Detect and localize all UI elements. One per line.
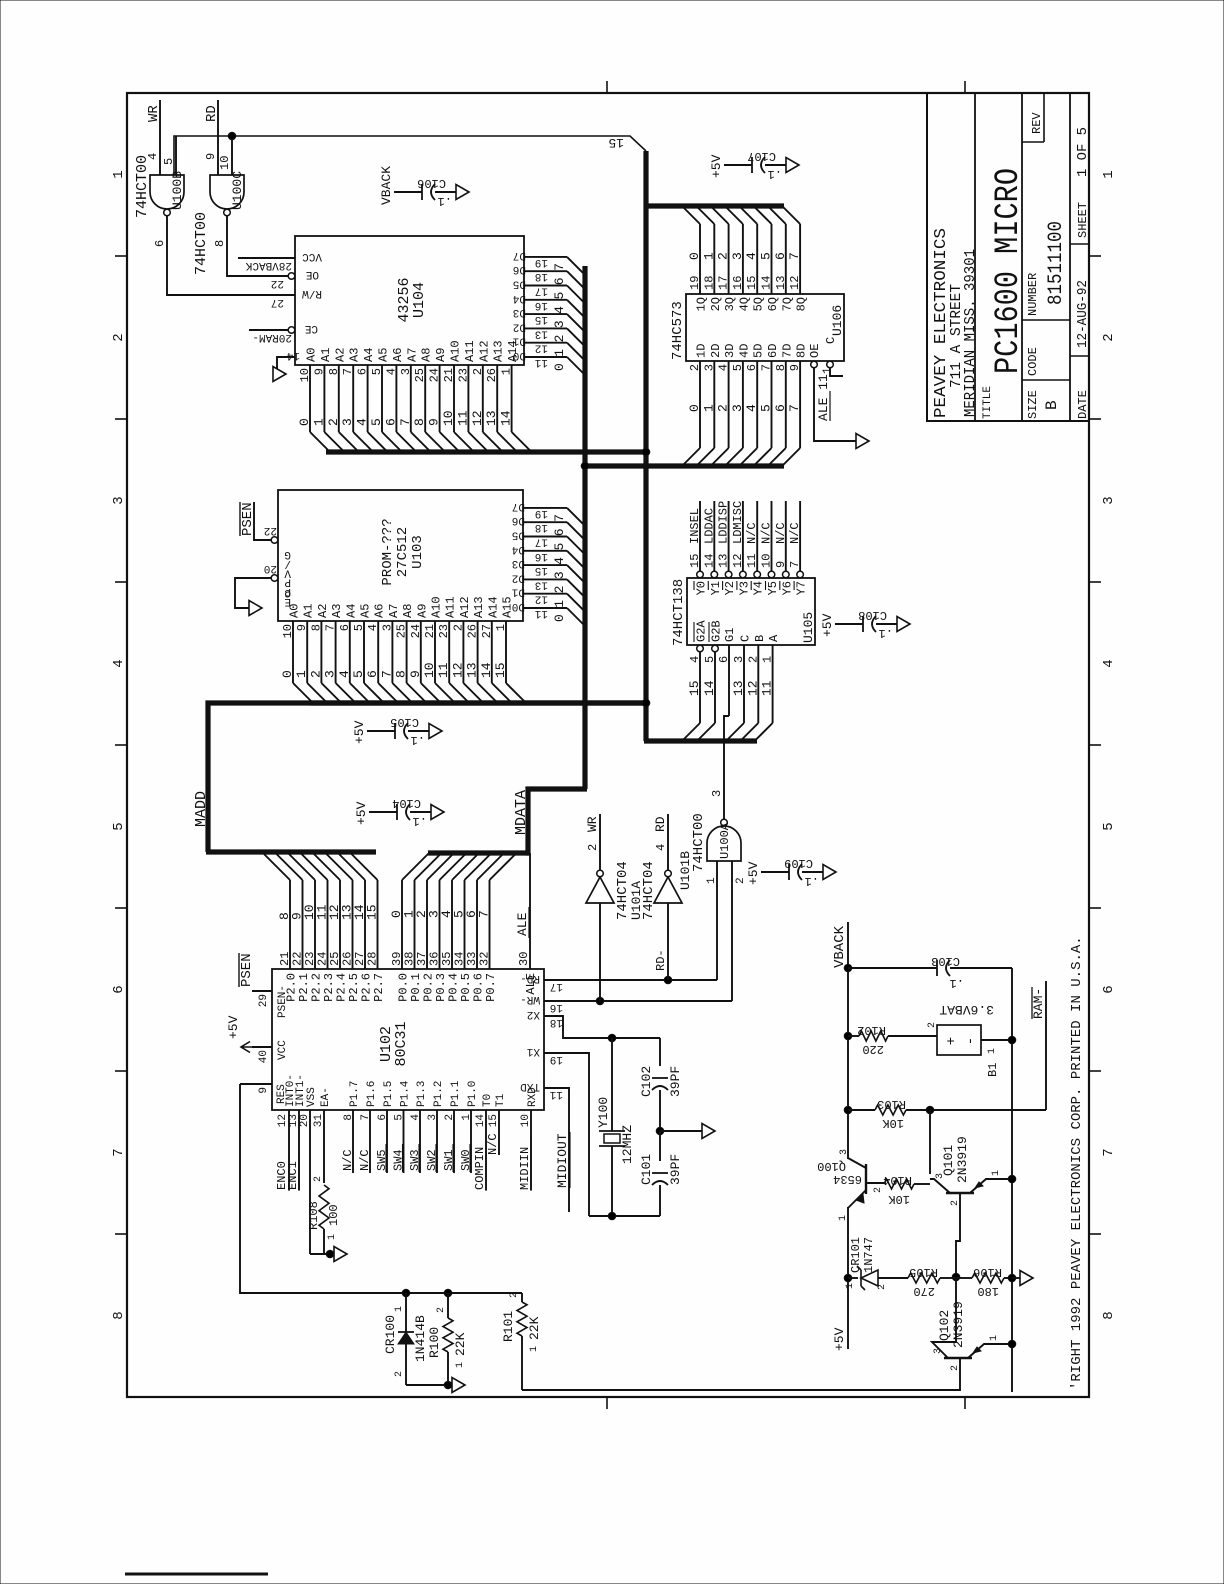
svg-text:6: 6 [365, 670, 380, 678]
wire U100B output pin6 to U104 R/W [167, 216, 295, 295]
svg-text:26: 26 [485, 368, 499, 382]
svg-text:VBACK: VBACK [379, 166, 394, 205]
capacitor C108 .1 [835, 623, 863, 625]
U105 pins Y0-Y7 outputs [688, 501, 709, 595]
capacitor C109 .1 [761, 871, 789, 873]
svg-text:SW3: SW3 [408, 1149, 422, 1171]
svg-text:P2.7: P2.7 [372, 973, 386, 1002]
svg-text:7: 7 [324, 624, 338, 631]
svg-text:14: 14 [475, 1114, 487, 1128]
svg-text:18: 18 [535, 270, 548, 282]
svg-text:11: 11 [534, 607, 548, 619]
svg-text:2: 2 [394, 1371, 405, 1377]
svg-text:15: 15 [365, 904, 380, 920]
svg-text:A3: A3 [330, 604, 344, 618]
svg-text:1: 1 [394, 1306, 405, 1312]
svg-text:0: 0 [297, 418, 312, 426]
svg-text:4: 4 [384, 368, 398, 375]
svg-text:P1.4: P1.4 [400, 1080, 412, 1107]
svg-text:N/C: N/C [358, 1149, 372, 1171]
bus U106 Q branch vertical [644, 203, 784, 208]
svg-text:6: 6 [153, 240, 167, 247]
svg-text:19: 19 [550, 1053, 563, 1065]
svg-text:ALE 11: ALE 11 [816, 374, 831, 421]
svg-text:13: 13 [535, 578, 548, 590]
ground arrow U104 pin14 [273, 367, 286, 382]
svg-text:7: 7 [379, 670, 394, 678]
svg-text:Q102: Q102 [937, 1310, 952, 1341]
svg-text:31: 31 [313, 1114, 325, 1128]
svg-text:2: 2 [471, 368, 485, 375]
svg-text:10: 10 [760, 554, 774, 568]
svg-text:22: 22 [264, 524, 277, 536]
svg-text:3D: 3D [723, 344, 737, 358]
svg-text:3: 3 [323, 670, 338, 678]
U102 pin ALE 30 [529, 853, 531, 969]
junction dot Q101 emitter gnd [1008, 1175, 1016, 1183]
resistor R108 100 [319, 1185, 329, 1229]
svg-text:R104: R104 [883, 1173, 912, 1187]
svg-text:A6: A6 [373, 604, 387, 618]
svg-text:-: - [963, 1037, 979, 1045]
svg-text:SW0: SW0 [459, 1149, 473, 1171]
U102 pin RD- 17 [544, 979, 717, 981]
junction dot pin10 on A15 wire [228, 132, 236, 140]
svg-text:15: 15 [493, 662, 508, 678]
svg-text:6: 6 [773, 252, 788, 260]
svg-text:PROM-???: PROM-??? [380, 518, 396, 585]
svg-text:Y100: Y100 [596, 1097, 611, 1128]
transistor Q101 2N3919 [946, 1192, 974, 1194]
svg-text:13: 13 [774, 276, 788, 290]
svg-text:D4: D4 [512, 292, 526, 304]
svg-text:5: 5 [111, 822, 127, 830]
svg-text:.1: .1 [805, 874, 819, 888]
svg-text:A2: A2 [316, 604, 330, 618]
svg-text:6: 6 [383, 418, 398, 426]
zener CR101 1N747 [848, 1277, 858, 1279]
junction dot CR100 R100 ground [444, 1381, 452, 1389]
svg-text:6534: 6534 [833, 1172, 862, 1186]
svg-text:24: 24 [428, 368, 442, 382]
svg-text:C101: C101 [639, 1154, 654, 1185]
svg-text:Q100: Q100 [817, 1159, 846, 1173]
svg-text:A10: A10 [430, 596, 444, 618]
svg-text:21: 21 [423, 624, 437, 638]
svg-text:13: 13 [484, 410, 499, 426]
svg-text:18: 18 [702, 276, 716, 290]
svg-text:10: 10 [298, 368, 312, 382]
svg-text:A10: A10 [449, 340, 463, 362]
svg-text:3: 3 [427, 1114, 439, 1121]
U102 pin INT0- ENC0 12 [288, 1110, 290, 1190]
U103 pin G/VPP 22 PSEN [271, 537, 278, 544]
svg-text:Y2: Y2 [723, 581, 737, 595]
svg-text:3: 3 [552, 320, 567, 328]
svg-text:A7: A7 [387, 604, 401, 618]
svg-text:R105: R105 [909, 1265, 938, 1279]
svg-text:13: 13 [535, 327, 548, 339]
bus MDATA P0 vertical at U102 [526, 850, 530, 855]
wire CR100 to ground join [406, 1384, 448, 1386]
svg-text:1: 1 [989, 1335, 1000, 1341]
svg-text:D4: D4 [511, 543, 525, 555]
svg-text:R102: R102 [857, 1023, 886, 1037]
svg-text:5: 5 [352, 624, 366, 631]
svg-text:74HCT00: 74HCT00 [691, 813, 707, 872]
svg-text:VBACK: VBACK [832, 925, 848, 968]
svg-text:4: 4 [717, 364, 731, 371]
svg-text:A11: A11 [444, 596, 458, 618]
battery B1 3.6VBAT [937, 1025, 981, 1055]
svg-text:A1: A1 [302, 604, 316, 618]
svg-text:9: 9 [774, 561, 788, 568]
U103 pin CE 20 grounded [271, 575, 278, 582]
junction dot R102 tap [844, 1032, 852, 1040]
svg-text:4: 4 [410, 1114, 422, 1121]
junction dot reset-R100 [444, 1289, 452, 1297]
svg-text:8: 8 [343, 1114, 355, 1121]
svg-text:25: 25 [395, 624, 409, 638]
ground arrow crystal [702, 1124, 715, 1139]
svg-text:MIDIOUT: MIDIOUT [555, 1133, 570, 1188]
svg-text:17: 17 [717, 276, 731, 290]
svg-text:G2A: G2A [695, 620, 709, 642]
junction dot VBACK-C103 [844, 964, 852, 972]
svg-text:4Q: 4Q [737, 297, 751, 311]
svg-text:3: 3 [730, 252, 745, 260]
resistor R101 22K [521, 1293, 523, 1302]
wire U100A input1 from RD- [716, 861, 718, 980]
svg-text:1: 1 [552, 349, 567, 357]
svg-text:A7: A7 [405, 348, 419, 362]
capacitor C105 .1 [367, 730, 395, 732]
svg-text:RD: RD [653, 816, 668, 832]
svg-text:MADD: MADD [193, 791, 210, 827]
svg-text:C108: C108 [858, 608, 887, 622]
svg-text:.1: .1 [950, 976, 964, 990]
svg-text:SW1: SW1 [442, 1149, 456, 1171]
svg-text:16: 16 [535, 550, 548, 562]
svg-text:6: 6 [1101, 985, 1117, 993]
svg-text:+5V: +5V [832, 1327, 847, 1351]
svg-text:2: 2 [877, 1284, 888, 1290]
svg-text:6: 6 [111, 985, 127, 993]
svg-text:10K: 10K [882, 1116, 904, 1130]
svg-text:D6: D6 [512, 514, 525, 526]
svg-text:R101: R101 [501, 1311, 516, 1342]
svg-text:8: 8 [1101, 1311, 1117, 1319]
U104 pin GND 14 with ground [277, 357, 295, 374]
wire crystal ground rail [589, 1215, 660, 1217]
svg-text:D7: D7 [513, 249, 526, 261]
svg-text:B: B [753, 635, 767, 642]
junction dot rail Y100 [608, 1212, 616, 1220]
svg-text:1: 1 [822, 367, 834, 374]
svg-text:9: 9 [258, 1087, 270, 1094]
svg-text:RD: RD [204, 105, 220, 122]
svg-text:R100: R100 [427, 1327, 442, 1358]
svg-text:13: 13 [731, 680, 746, 696]
svg-text:X1: X1 [526, 1045, 540, 1057]
resistor R104 10K [884, 1179, 914, 1189]
svg-text:30: 30 [517, 952, 531, 966]
svg-text:5: 5 [162, 158, 176, 165]
svg-text:2Q: 2Q [709, 297, 723, 311]
U102 pin INT1- ENC1 13 [298, 1110, 300, 1190]
bus MADD P2 vertical at U102 [206, 849, 376, 854]
junction dot MADD-U104 [642, 448, 650, 456]
svg-text:OE: OE [305, 268, 319, 280]
resistor R105 270 [908, 1273, 940, 1283]
svg-text:16: 16 [731, 276, 745, 290]
svg-text:2: 2 [716, 404, 731, 412]
svg-text:R103: R103 [877, 1097, 906, 1111]
svg-text:5Q: 5Q [752, 297, 766, 311]
svg-text:2: 2 [586, 844, 600, 851]
svg-text:G2B: G2B [710, 620, 724, 642]
svg-text:12: 12 [731, 554, 745, 568]
junction dot MDATA split [581, 462, 589, 470]
svg-text:1: 1 [327, 1234, 338, 1240]
svg-text:1: 1 [529, 1346, 540, 1352]
svg-text:40: 40 [258, 1050, 270, 1063]
svg-text:1: 1 [294, 670, 309, 678]
svg-text:220: 220 [862, 1042, 884, 1056]
junction dot RD- to U101B [664, 976, 672, 984]
svg-text:A14: A14 [486, 596, 500, 618]
U102 pin VSS 20 [309, 1110, 311, 1254]
junction dot reset-CR100 [402, 1289, 410, 1297]
junction dot battery gnd [1008, 1036, 1016, 1044]
U103 pins A0-A15 with bus fan [280, 604, 313, 703]
svg-text:4: 4 [146, 153, 160, 160]
wire pin5 from A15 [175, 136, 177, 175]
svg-text:2: 2 [308, 670, 323, 678]
svg-text:Y7: Y7 [795, 581, 809, 595]
U103 pins D0-D7 with bus fan [512, 600, 586, 627]
ground arrow C109 [823, 865, 836, 880]
ground arrow U103 CE [249, 601, 262, 616]
svg-text:4: 4 [552, 557, 567, 565]
ground arrow C104 [431, 805, 444, 820]
svg-text:14: 14 [760, 276, 774, 290]
svg-text:5: 5 [552, 292, 567, 300]
svg-text:U100C: U100C [230, 171, 245, 210]
svg-text:U106: U106 [830, 305, 845, 336]
resistor R100 22K [443, 1318, 453, 1352]
svg-text:29: 29 [258, 994, 270, 1007]
svg-text:3: 3 [111, 496, 127, 504]
svg-text:+5V: +5V [709, 154, 724, 178]
svg-text:17: 17 [550, 980, 563, 992]
svg-text:SHEET: SHEET [1076, 202, 1090, 238]
U105 pin G1 from U100A [728, 645, 730, 716]
svg-text:.1: .1 [411, 733, 425, 747]
crystal Y100 12MHZ [611, 1038, 613, 1131]
svg-text:8: 8 [412, 418, 427, 426]
svg-text:22K: 22K [527, 1316, 542, 1340]
svg-text:C: C [824, 337, 838, 344]
bus MADD U103 branch vertical [310, 700, 646, 705]
svg-text:9: 9 [408, 670, 423, 678]
scan mark bottom-left margin [125, 1573, 268, 1576]
svg-text:4D: 4D [737, 344, 751, 358]
bus U105 select branch [644, 738, 757, 743]
svg-text:N/C: N/C [788, 522, 802, 544]
svg-text:6: 6 [552, 528, 567, 536]
svg-text:ENC1: ENC1 [286, 1161, 300, 1190]
svg-text:3: 3 [340, 418, 355, 426]
svg-text:20RAM-: 20RAM- [252, 331, 292, 343]
svg-text:D2: D2 [512, 571, 525, 583]
svg-text:INSEL: INSEL [688, 508, 702, 544]
svg-text:REV: REV [1030, 112, 1044, 134]
svg-text:P1.5: P1.5 [383, 1081, 395, 1107]
ground arrow power rail [1012, 1277, 1020, 1279]
ground arrow reset [452, 1378, 465, 1393]
junction dot R103 tap [844, 1106, 852, 1114]
svg-text:5: 5 [1101, 822, 1117, 830]
svg-text:D1: D1 [512, 335, 526, 347]
capacitor C106 .1 [394, 191, 422, 193]
bus MADD main horizontal [643, 151, 648, 741]
svg-text:11: 11 [436, 662, 451, 678]
svg-text:Y1: Y1 [709, 581, 723, 595]
svg-text:28: 28 [366, 952, 380, 966]
svg-text:8D: 8D [795, 344, 809, 358]
svg-text:1: 1 [838, 1215, 849, 1221]
svg-text:Y3: Y3 [737, 581, 751, 595]
svg-text:OE: OE [808, 344, 822, 358]
svg-text:1 OF 5: 1 OF 5 [1075, 127, 1091, 177]
svg-text:2: 2 [746, 656, 760, 663]
U104 pins A0-A14 with bus fan [297, 348, 330, 452]
svg-text:4: 4 [744, 252, 759, 260]
svg-text:12: 12 [535, 342, 548, 354]
ground arrow R108 [334, 1247, 347, 1262]
svg-text:A: A [767, 634, 781, 642]
svg-text:20: 20 [299, 1114, 311, 1127]
svg-text:0: 0 [552, 614, 567, 622]
svg-text:D7: D7 [512, 500, 525, 512]
svg-text:4: 4 [688, 656, 702, 663]
bus MDATA U106 branch vertical [583, 463, 784, 468]
svg-text:6Q: 6Q [766, 297, 780, 311]
svg-text:17: 17 [535, 285, 548, 297]
svg-text:7: 7 [111, 1148, 127, 1156]
svg-text:3: 3 [710, 790, 724, 797]
svg-text:15: 15 [535, 564, 548, 576]
svg-text:1Q: 1Q [695, 297, 709, 311]
svg-text:3.6VBAT: 3.6VBAT [939, 1002, 994, 1017]
svg-text:3Q: 3Q [723, 297, 737, 311]
svg-text:P0.7: P0.7 [484, 973, 498, 1002]
svg-text:19: 19 [535, 256, 548, 268]
title block [927, 93, 1089, 421]
svg-text:28VBACK: 28VBACK [245, 259, 292, 271]
wire U100A input2 from WR- [731, 861, 733, 1001]
svg-text:C105: C105 [390, 715, 419, 729]
svg-text:2: 2 [111, 333, 127, 341]
svg-text:EA-: EA- [320, 1087, 332, 1107]
svg-text:MDATA: MDATA [513, 790, 530, 835]
wire RAM- flag [1045, 981, 1047, 1110]
svg-text:7: 7 [787, 252, 802, 260]
svg-text:5: 5 [731, 364, 745, 371]
svg-text:4: 4 [366, 624, 380, 631]
svg-text:A9: A9 [415, 604, 429, 618]
svg-text:A5: A5 [377, 348, 391, 362]
bus MADD corner to U102 [208, 703, 646, 852]
svg-text:R108: R108 [307, 1201, 321, 1230]
capacitor C102 39PF [659, 1038, 661, 1066]
svg-text:A2: A2 [333, 348, 347, 362]
wire to ground crystal [660, 1130, 702, 1132]
wire U101A output WR flag [599, 814, 601, 870]
svg-text:7D: 7D [780, 344, 794, 358]
svg-text:9: 9 [312, 368, 326, 375]
svg-text:B: B [1043, 400, 1061, 410]
svg-text:7: 7 [788, 561, 802, 568]
svg-text:SW4: SW4 [392, 1149, 406, 1171]
svg-text:5: 5 [759, 252, 774, 260]
U102 pin RES 9 [240, 1083, 272, 1085]
svg-text:20: 20 [264, 562, 277, 574]
svg-text:15: 15 [687, 680, 702, 696]
svg-text:11: 11 [549, 1088, 563, 1100]
svg-text:A13: A13 [492, 340, 506, 362]
svg-text:D6: D6 [513, 263, 526, 275]
svg-text:P1.2: P1.2 [433, 1081, 445, 1107]
border frame [127, 93, 1089, 1397]
svg-text:0: 0 [552, 363, 567, 371]
svg-text:7: 7 [760, 364, 774, 371]
svg-text:N/C: N/C [341, 1149, 355, 1171]
svg-text:.1: .1 [879, 626, 893, 640]
svg-text:COMPIN: COMPIN [473, 1147, 487, 1190]
svg-text:PSEN: PSEN [240, 502, 256, 536]
svg-text:24: 24 [409, 624, 423, 638]
U104 pin OE 22 [288, 273, 295, 280]
svg-text:14: 14 [702, 680, 717, 696]
wire Q101 collector [929, 1110, 931, 1174]
svg-text:N/C: N/C [486, 1133, 500, 1155]
junction dot R105 R106 node [952, 1273, 960, 1281]
svg-text:14: 14 [479, 662, 494, 678]
svg-text:22K: 22K [453, 1332, 468, 1356]
svg-text:LDDISP: LDDISP [717, 501, 731, 544]
wire RES to reset node [240, 1084, 522, 1293]
junction dot R103 node [926, 1106, 934, 1114]
U102 pin WR- 16 [544, 1000, 732, 1002]
svg-text:6: 6 [356, 368, 370, 375]
svg-text:5: 5 [703, 656, 717, 663]
svg-text:TXD: TXD [520, 1080, 540, 1092]
svg-text:2: 2 [873, 1187, 884, 1193]
svg-text:D5: D5 [513, 278, 526, 290]
svg-text:2: 2 [716, 252, 731, 260]
U102 pin T0 COMPIN 14 [485, 1110, 487, 1190]
svg-text:14: 14 [286, 349, 300, 361]
gate U100C 74HCT00 [210, 175, 244, 209]
U104 pins D0-D7 with bus fan [513, 349, 584, 374]
wire WR input pin4 [159, 100, 161, 175]
svg-text:PSEN: PSEN [239, 953, 255, 987]
svg-text:32: 32 [478, 952, 492, 966]
svg-text:CR101: CR101 [849, 1237, 863, 1273]
svg-text:3: 3 [933, 1348, 944, 1354]
